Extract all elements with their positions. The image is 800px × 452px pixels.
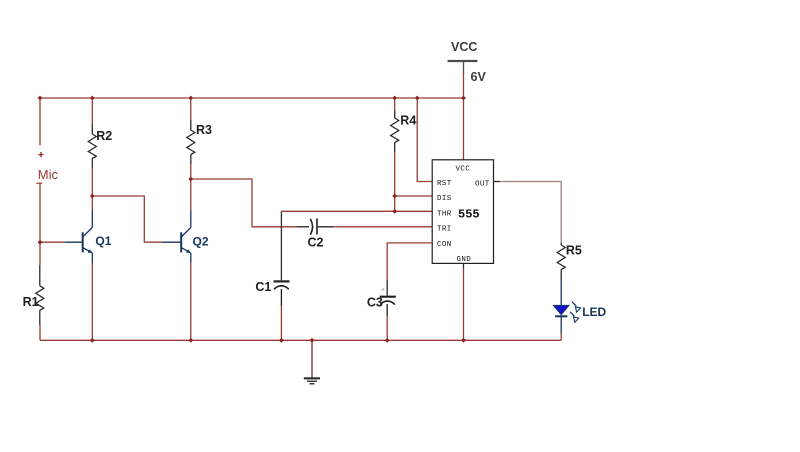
wire OUT to R5: [494, 182, 562, 243]
svg-text:R1: R1: [23, 295, 39, 309]
svg-text:R2: R2: [96, 129, 112, 143]
wire VCC stem to IC VCC pin: [463, 73, 465, 160]
junction top rail at VCC: [461, 96, 466, 101]
svg-text:VCC: VCC: [456, 166, 471, 174]
wire Q1 emitter to bottom rail: [91, 263, 93, 340]
svg-text:C1: C1: [255, 280, 271, 294]
svg-text:RST: RST: [437, 180, 452, 188]
svg-text:DIS: DIS: [437, 195, 452, 203]
wire R3 branch upper: [190, 98, 192, 120]
junction top rail at R4: [392, 96, 397, 101]
resistor R5: [557, 243, 582, 280]
junction top rail at R2: [90, 96, 95, 101]
wire THR line: [281, 210, 432, 212]
svg-text:GND: GND: [457, 256, 472, 264]
junction top rail at R3: [188, 96, 193, 101]
svg-text:VCC: VCC: [451, 40, 477, 54]
wire R4 bottom to DIS and THR: [394, 152, 396, 211]
junction bottom rail at IC GND: [461, 338, 466, 343]
power VCC: [448, 40, 487, 84]
resistor R3: [187, 120, 212, 164]
junction mic base node: [38, 240, 43, 245]
wire Q2 emitter to bottom rail: [190, 263, 192, 340]
svg-text:R3: R3: [196, 123, 212, 137]
wire mic lower lead: [39, 183, 41, 265]
svg-text:R4: R4: [400, 114, 416, 128]
svg-text:C3: C3: [367, 296, 383, 310]
resistor R4: [391, 110, 417, 152]
wire C1 to bottom rail: [280, 306, 282, 340]
wire CON to C3: [387, 243, 432, 280]
junction bottom rail at C3: [385, 338, 390, 343]
node Mic: [36, 152, 58, 183]
svg-text:CON: CON: [437, 241, 452, 249]
capacitor C1: [255, 211, 289, 306]
junction R2 bottom node: [90, 194, 95, 199]
svg-text:Mic: Mic: [38, 167, 59, 182]
transistor Q2: [162, 211, 209, 264]
junction bottom rail at C1: [279, 338, 284, 343]
wire R1 to bottom rail: [39, 325, 41, 340]
wire mic upper lead: [39, 98, 41, 146]
junction bottom rail at Q1: [90, 338, 95, 343]
capacitor C3: [367, 280, 396, 316]
op-amp U1 555: [432, 160, 493, 264]
wire R2 node to Q2 base: [92, 196, 162, 242]
wire LED to bottom rail: [560, 333, 562, 340]
wire C3 to bottom rail: [386, 316, 388, 340]
svg-text:Q1: Q1: [95, 234, 111, 248]
svg-text:6V: 6V: [471, 70, 487, 84]
LED D1: [553, 280, 606, 333]
junction bottom rail at ground: [310, 338, 315, 343]
wire bottom ground rail: [40, 339, 561, 341]
wire R2 bottom to Q1 collector node: [91, 168, 93, 211]
svg-text:Q2: Q2: [193, 235, 209, 249]
wire R3 bottom to Q2 collector node: [190, 164, 192, 211]
wire Q1 base from mic node: [40, 241, 65, 243]
wire R2 branch upper: [91, 98, 93, 124]
transistor Q1: [65, 211, 112, 264]
junction bottom rail at Q2: [188, 338, 193, 343]
svg-text:TRI: TRI: [437, 226, 452, 234]
svg-text:OUT: OUT: [475, 181, 490, 189]
junction R3 bottom node: [188, 177, 193, 182]
wire DIS line: [395, 195, 433, 197]
svg-text:THR: THR: [437, 210, 452, 218]
junction top rail at mic: [38, 96, 43, 101]
wire RST line: [417, 98, 432, 182]
junction top rail at RST: [415, 96, 420, 101]
wire R4 branch upper: [394, 98, 396, 110]
junction R4 THR node: [392, 209, 397, 214]
capacitor C2: [297, 218, 334, 249]
svg-text:LED: LED: [582, 305, 606, 319]
resistor R2: [88, 124, 112, 168]
wire IC GND pin to bottom rail: [463, 263, 465, 340]
wire top supply rail: [40, 97, 464, 99]
ground: [304, 340, 320, 384]
junction R4 DIS node: [392, 194, 397, 199]
svg-text:R5: R5: [566, 244, 582, 258]
resistor R1: [23, 265, 44, 325]
wire C2 to TRI pin: [333, 226, 432, 228]
svg-text:C2: C2: [308, 235, 324, 249]
wire Q2 collector node to C2 and TRI: [191, 179, 297, 227]
svg-text:555: 555: [458, 208, 480, 222]
